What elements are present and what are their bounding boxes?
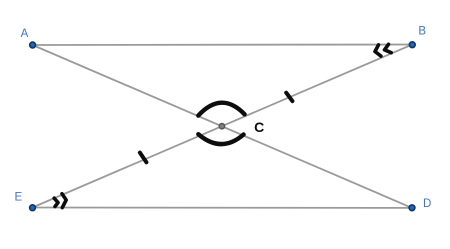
angle arc ECD (bottom, at node C)	[198, 134, 243, 144]
wire segment AB (top line)	[33, 44, 413, 47]
point D	[409, 205, 415, 211]
svg-text:B: B	[418, 26, 426, 38]
wire segment ED (bottom line)	[33, 207, 413, 209]
svg-text:A: A	[21, 28, 29, 40]
wire segment EB (diagonal)	[33, 45, 413, 208]
svg-text:D: D	[423, 198, 431, 210]
svg-text:C: C	[254, 119, 264, 135]
point B	[409, 42, 415, 48]
svg-text:E: E	[14, 191, 22, 203]
angle mark at E (right chevron)	[62, 194, 66, 208]
tick mark on segment CB	[286, 93, 292, 101]
point E	[30, 205, 36, 211]
angle mark at B (inner chevron)	[385, 44, 392, 52]
point A	[30, 42, 36, 48]
tick mark on segment EC	[140, 153, 147, 163]
node C (intersection point)	[219, 124, 224, 129]
angle arc ACB (top, at node C)	[198, 103, 244, 116]
angle mark at E (left chevron)	[54, 198, 58, 206]
angle mark at B (outer chevron)	[375, 45, 381, 56]
wire segment AD (diagonal)	[33, 45, 412, 208]
